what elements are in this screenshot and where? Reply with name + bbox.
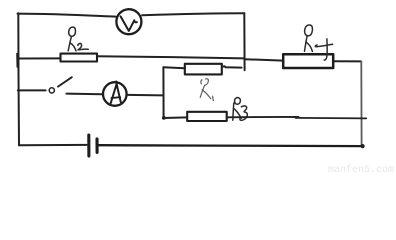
switch S1 [49, 77, 72, 93]
wire: switch branch from left bus [18, 89, 46, 91]
label R3 [233, 98, 248, 121]
wire: switch to ammeter [66, 93, 102, 96]
wire: top horizontal right (voltmeter to node B) [142, 13, 244, 15]
watermark [328, 165, 394, 176]
wire: junction to R1 [163, 66, 184, 69]
ammeter A1 [103, 81, 127, 105]
label R2 [68, 27, 88, 51]
label R4 [305, 25, 333, 60]
label R1 [200, 79, 213, 101]
resistor R4 [283, 54, 333, 68]
junction dot bottom right corner [361, 144, 365, 148]
resistor R2 [61, 54, 98, 62]
wire: left vertical bus [17, 13, 20, 145]
wire: R4 to right bus [334, 60, 362, 62]
wire: ammeter to middle junction [128, 94, 164, 97]
wire: node B to R4 [245, 59, 283, 60]
wire: middle junction vertical [162, 67, 164, 118]
wire: second horizontal, left bus to R2 [18, 57, 61, 59]
wire: R2 to node B [97, 56, 244, 58]
wire: junction to R3 [164, 116, 188, 119]
wire: bottom bus left (to battery) [19, 144, 87, 146]
resistor R1 [185, 64, 222, 75]
junction dot (bottom of middle vertical) [162, 116, 166, 120]
resistor R3 [187, 112, 227, 121]
wire: R1 to node B [222, 66, 241, 67]
wire: R3 to right bus (crossing) [227, 116, 298, 118]
battery BT1 [89, 135, 97, 156]
wire: node B vertical drop [243, 13, 245, 70]
wire: left bus double-drawn segment [16, 54, 18, 68]
wire: bottom bus right (battery to right corner) [99, 144, 362, 147]
voltmeter V1 [116, 9, 141, 34]
wire: right vertical bus [360, 61, 362, 146]
wire: top horizontal left (bus to voltmeter) [18, 14, 116, 17]
